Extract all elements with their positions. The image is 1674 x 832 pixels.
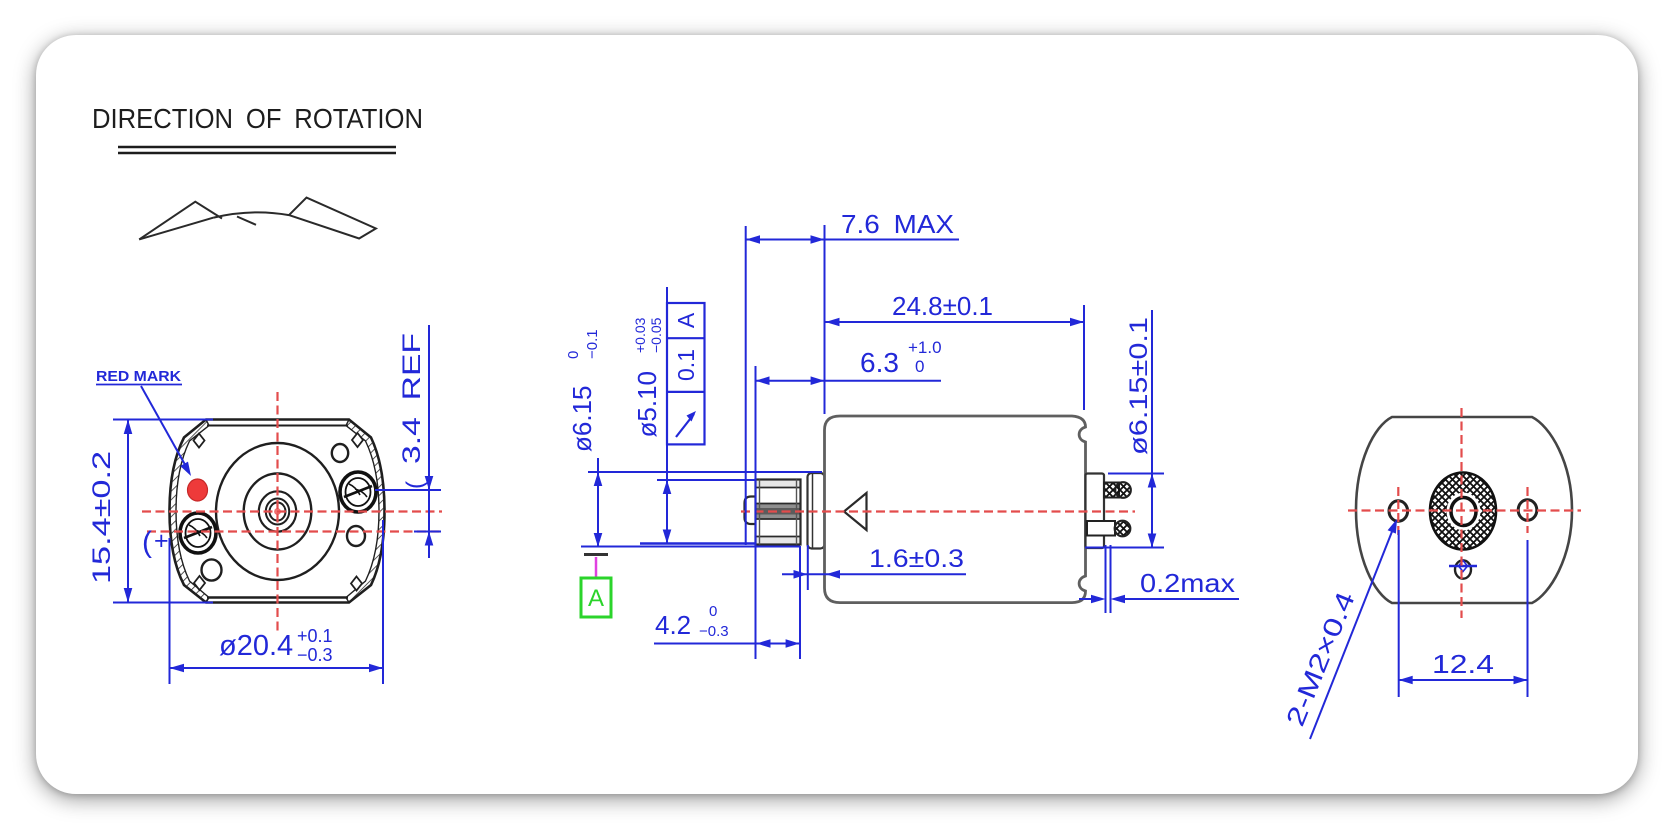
thrust washer bbox=[808, 473, 825, 549]
dimension 7.6 MAX bbox=[746, 239, 959, 241]
blue cross on vent hole bbox=[1449, 565, 1477, 567]
shaft circle bbox=[270, 503, 286, 521]
centerline vertical (red) bbox=[1460, 408, 1462, 618]
inner top edge bbox=[207, 425, 348, 427]
svg-text:DIRECTION OF ROTATION: DIRECTION OF ROTATION bbox=[92, 103, 423, 134]
motor body outline (front) bbox=[170, 420, 385, 603]
dimension 12.4 bbox=[1398, 530, 1400, 697]
svg-text:0: 0 bbox=[915, 357, 924, 376]
svg-text:+0.03: +0.03 bbox=[632, 317, 648, 353]
svg-text:(: ( bbox=[402, 481, 429, 489]
cap hole top-right bbox=[332, 444, 348, 462]
svg-text:+1.0: +1.0 bbox=[908, 338, 942, 357]
red mark dot bbox=[188, 479, 208, 501]
dimension ø20.4 bbox=[170, 520, 384, 684]
mounting hole right bbox=[1518, 500, 1537, 521]
terminal screw left bbox=[180, 513, 216, 553]
centerline horizontal lower terminal (red) bbox=[147, 530, 442, 532]
centerline vertical (red) bbox=[276, 392, 278, 632]
feature control frame (runout 0.1 A) bbox=[667, 303, 705, 444]
dimension 3.4 REF bbox=[375, 325, 441, 558]
motor body outline (rear) bbox=[1356, 417, 1572, 603]
svg-text:24.8±0.1: 24.8±0.1 bbox=[892, 291, 993, 321]
crosshair left hole (red) bbox=[1397, 487, 1399, 536]
rotor circle bbox=[244, 474, 312, 550]
orientation triangle mark bbox=[844, 493, 867, 530]
svg-text:−0.05: −0.05 bbox=[648, 317, 664, 353]
bearing circle bbox=[259, 491, 296, 531]
datum A target bbox=[584, 553, 608, 556]
svg-text:−0.1: −0.1 bbox=[584, 329, 601, 359]
svg-text:−0.3: −0.3 bbox=[699, 623, 729, 640]
bearing boss large circle bbox=[216, 443, 339, 580]
red mark leader bbox=[141, 386, 188, 470]
terminal screw right bbox=[340, 472, 376, 512]
corner notch bottom-right bbox=[351, 577, 362, 591]
shaft tip nub bbox=[745, 497, 758, 525]
svg-text:4.2: 4.2 bbox=[655, 610, 691, 640]
upper terminal pin bbox=[1104, 483, 1119, 498]
crosshair right hole (red) bbox=[1526, 487, 1528, 533]
mounting hole left bbox=[1389, 501, 1408, 522]
rotation direction arrow symbol bbox=[139, 198, 376, 240]
svg-text:6.3: 6.3 bbox=[860, 347, 899, 378]
svg-text:0.2max: 0.2max bbox=[1140, 568, 1235, 598]
dimension ø6.15 0/-0.1 (left) bbox=[597, 458, 599, 547]
lower terminal pin bbox=[1087, 521, 1115, 536]
svg-text:RED MARK: RED MARK bbox=[96, 368, 181, 385]
centerline horizontal (red) bbox=[1348, 509, 1581, 511]
leader 2-M2x0.4 bbox=[1310, 524, 1395, 739]
svg-text:7.6 MAX: 7.6 MAX bbox=[841, 209, 954, 239]
centerline (red) side view bbox=[741, 510, 1135, 512]
dimension ø5.10 +0.03/-0.05 bbox=[666, 287, 668, 544]
corner notch top-right bbox=[352, 433, 363, 447]
svg-text:1.6±0.3: 1.6±0.3 bbox=[869, 545, 964, 573]
svg-text:3.4 REF: 3.4 REF bbox=[398, 333, 426, 464]
knurled bearing hub bbox=[1430, 473, 1496, 550]
rim hatch band right bbox=[346, 420, 385, 603]
rim hatch band left bbox=[170, 420, 210, 603]
shaft boss circle bbox=[266, 499, 289, 525]
dimension 6.3 +1.0/0 bbox=[756, 380, 942, 382]
svg-text:0: 0 bbox=[709, 603, 717, 620]
svg-text:A: A bbox=[588, 585, 604, 612]
svg-text:+0.1: +0.1 bbox=[297, 626, 333, 646]
svg-text:0.1: 0.1 bbox=[673, 349, 699, 381]
cap hole right-lower bbox=[347, 526, 365, 546]
svg-text:(: ( bbox=[142, 526, 152, 559]
shaft center red dot bbox=[274, 508, 281, 515]
svg-text:A: A bbox=[673, 312, 699, 328]
hub bore bbox=[1447, 493, 1481, 531]
svg-text:ø20.4: ø20.4 bbox=[219, 630, 293, 662]
dimension 24.8±0.1 bbox=[1083, 305, 1085, 410]
inner bottom edge bbox=[207, 596, 348, 598]
dimension 0.2max bbox=[1105, 545, 1107, 613]
svg-text:+: + bbox=[154, 527, 169, 555]
blue extension lines bbox=[746, 225, 825, 659]
svg-text:ø5.10: ø5.10 bbox=[632, 371, 662, 438]
corner notch top-left bbox=[194, 434, 205, 448]
worm gear on shaft bbox=[756, 480, 801, 545]
svg-text:ø6.15: ø6.15 bbox=[567, 386, 597, 453]
corner notch bottom-left bbox=[194, 576, 205, 590]
svg-text:12.4: 12.4 bbox=[1432, 649, 1494, 679]
double underline bbox=[118, 146, 396, 149]
svg-text:2-M2×0.4: 2-M2×0.4 bbox=[1280, 587, 1361, 730]
vent hole bottom bbox=[1455, 560, 1471, 578]
dimension 15.4±0.2 bbox=[113, 420, 213, 603]
dimension 1.6±0.3 bbox=[782, 573, 966, 575]
motor body (side) bbox=[825, 416, 1086, 603]
centerline horizontal main (red) bbox=[142, 510, 442, 512]
svg-text:ø6.15±0.1: ø6.15±0.1 bbox=[1125, 317, 1153, 455]
svg-text:−0.3: −0.3 bbox=[297, 645, 333, 665]
terminal end cap bbox=[1086, 474, 1105, 549]
cap hole bottom-left bbox=[202, 559, 222, 580]
dimension 4.2 0/-0.3 bbox=[654, 643, 800, 645]
svg-text:0: 0 bbox=[565, 351, 582, 359]
svg-text:15.4±0.2: 15.4±0.2 bbox=[88, 451, 116, 584]
dimension ø6.15±0.1 (right) bbox=[1151, 310, 1153, 548]
